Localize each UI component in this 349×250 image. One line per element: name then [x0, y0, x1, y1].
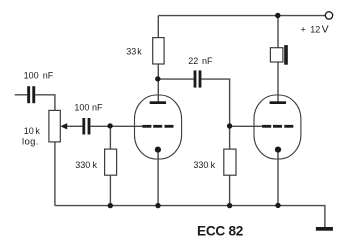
wire node B to C3 — [158, 78, 193, 80]
capacitor C2 100 nF — [82, 118, 90, 135]
svg-text:ECC 82: ECC 82 — [197, 224, 244, 239]
junction dot ground rail R2 — [108, 203, 113, 208]
wire potentiometer bottom to ground rail — [54, 142, 56, 206]
wire wiper to C2 — [67, 125, 83, 127]
svg-text:330k: 330k — [75, 160, 97, 170]
junction dot ground rail V1 cathode — [155, 203, 160, 208]
node C junction dot grid V2 — [227, 123, 232, 128]
svg-text:log.: log. — [22, 137, 39, 148]
node B junction dot anode R1 — [155, 76, 160, 81]
wire node A down to R2 top — [109, 126, 111, 149]
triode V1 cathode dot — [155, 147, 161, 153]
junction dot ground rail R3 — [227, 203, 232, 208]
svg-text:10k: 10k — [24, 126, 41, 136]
wire V1 cathode to ground rail — [157, 150, 159, 206]
triode V2 cathode dot — [275, 147, 281, 153]
node A junction dot grid V1 — [107, 123, 112, 128]
triode V1 envelope — [135, 95, 182, 159]
wire node C down to R3 top — [229, 126, 231, 149]
wire C2 to node A — [90, 125, 110, 127]
potentiometer P1 body — [49, 110, 60, 141]
triode V1 grid dashes — [142, 125, 173, 128]
svg-text:+12V: +12V — [301, 23, 329, 35]
triode V2 envelope — [254, 95, 301, 159]
wire C3 to node C — [201, 79, 229, 126]
resistor R1 33 k — [153, 38, 164, 64]
resistor R3 330 k — [224, 149, 236, 175]
wire R1 top to supply rail — [157, 16, 159, 38]
earpiece LS1 piezo plate — [284, 45, 288, 65]
svg-text:100nF: 100nF — [74, 103, 103, 113]
resistor R2 330 k — [105, 149, 117, 175]
triode V1 anode plate — [150, 101, 166, 104]
wire node A to V1 grid — [110, 125, 142, 127]
wire V2 cathode to ground rail — [277, 150, 279, 206]
earpiece LS1 box — [270, 48, 283, 62]
wire node C to V2 grid — [230, 125, 263, 127]
ground symbol — [316, 227, 333, 231]
supply terminal +12V — [325, 12, 332, 19]
wire R3 bottom to ground rail — [229, 175, 231, 205]
capacitor C1 100 nF — [27, 86, 35, 103]
junction dot ground rail V2 cathode — [275, 203, 280, 208]
wire earpiece LS1 to V2 anode — [277, 62, 279, 102]
wire +12V supply rail — [158, 15, 325, 17]
svg-text:330k: 330k — [193, 160, 215, 170]
wire input stub left — [15, 94, 27, 96]
triode V2 anode plate — [270, 101, 286, 104]
svg-text:33k: 33k — [126, 47, 142, 57]
wire bottom ground rail — [55, 206, 325, 228]
wire supply rail to earpiece LS1 — [277, 16, 279, 48]
capacitor C3 22 nF — [194, 70, 202, 87]
wire R2 bottom to ground rail — [109, 175, 111, 205]
node junction dot supply rail — [275, 13, 280, 18]
wire R1 bottom to V1 anode — [157, 64, 159, 102]
potentiometer P1 wiper arrow — [60, 123, 67, 129]
wire C1 to potentiometer top — [35, 95, 55, 111]
triode V2 grid dashes — [262, 125, 293, 128]
